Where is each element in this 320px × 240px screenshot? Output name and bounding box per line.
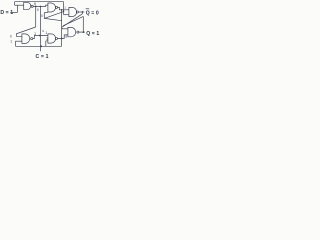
wire Q feedback rise [82, 16, 84, 32]
wire G1 output branch down [35, 6, 37, 27]
nand G5 bubble [76, 11, 78, 13]
wire Qbar feedback diagonal into G6 top input [62, 14, 83, 29]
svg-text:D = 1: D = 1 [0, 10, 13, 16]
node junction dot on G4 output [61, 38, 63, 40]
node junction dot on G3-G5 wire [61, 9, 63, 11]
wire G1 output to G3 top input [33, 5, 48, 6]
svg-text:0: 0 [65, 35, 67, 39]
node junction dot on C rail [40, 45, 42, 47]
svg-text:0: 0 [41, 14, 43, 18]
wire C riser to G2 bottom input [15, 41, 17, 46]
wire G3 bottom input drop [43, 13, 45, 19]
svg-text:1: 1 [64, 5, 66, 9]
svg-text:Q = 1: Q = 1 [86, 31, 99, 37]
nand G6 bubble [77, 31, 79, 33]
wire Q feedback diagonal to G6 area [63, 16, 83, 25]
wire G5 bottom input [64, 14, 69, 16]
node junction dot on Qbar wire [82, 11, 84, 13]
svg-text:1: 1 [45, 31, 47, 35]
svg-text:1: 1 [46, 37, 48, 41]
nand G3 body [48, 3, 56, 12]
node junction dot at top-wire drop [63, 11, 64, 12]
wire G3 bottom input [44, 12, 48, 14]
svg-text:1: 1 [10, 39, 12, 43]
node junction dot at top of long branch [40, 6, 42, 8]
nand G5 body [69, 7, 77, 16]
svg-text:Q = 0: Q = 0 [86, 10, 99, 16]
wire feedback shallow diagonal to center column [44, 18, 61, 20]
nand G2 bubble [31, 38, 33, 40]
overbar for Qbar [86, 8, 90, 10]
wire G2 output jog up to G4 top input [33, 36, 48, 39]
wire center column vertical [61, 10, 63, 47]
node junction dot on Q wire [82, 31, 84, 33]
svg-text:0: 0 [37, 8, 39, 12]
wire top long run to right column [15, 1, 64, 3]
wire branch right into G6 top input [62, 28, 68, 30]
wire D to gate G1 [15, 4, 24, 6]
wire feedback shallow diagonal rising to drop column [44, 12, 63, 19]
nand G3 bubble [55, 6, 57, 8]
wire D horizontal [10, 11, 17, 13]
svg-text:0: 0 [10, 34, 12, 38]
wire Qbar feedback drop [81, 12, 83, 14]
nand G4 bubble [55, 37, 57, 39]
svg-text:C = 1: C = 1 [36, 54, 49, 60]
inverter G1 body [24, 2, 31, 9]
wire G2 bottom input [16, 40, 22, 42]
wire D riser [17, 5, 19, 12]
nand G2 body [22, 34, 30, 44]
wire G4 bottom input [46, 40, 48, 42]
nand G4 body [48, 34, 56, 43]
wire G4 output to G6 bottom input [57, 35, 68, 39]
wire diagonal to G2 top input [16, 27, 35, 36]
wire G3 output jog down to G5 top input [57, 7, 69, 9]
wire top run drop at x=63.6 [63, 2, 65, 15]
wire G5 output Qbar [78, 11, 84, 13]
svg-text:0: 0 [42, 29, 44, 33]
wire D branch up [14, 2, 16, 5]
nand G6 body [68, 27, 76, 36]
wire C rail horizontal [16, 45, 62, 47]
inverter G1 bubble [31, 5, 33, 7]
wire long branch from G1 output down through C rail [39, 6, 41, 51]
node junction dot on G1 output [35, 6, 37, 8]
wire G6 output Q [79, 31, 85, 33]
wire C riser to G4 bottom input [45, 41, 47, 46]
node junction dot on G2 output wire [39, 35, 41, 37]
